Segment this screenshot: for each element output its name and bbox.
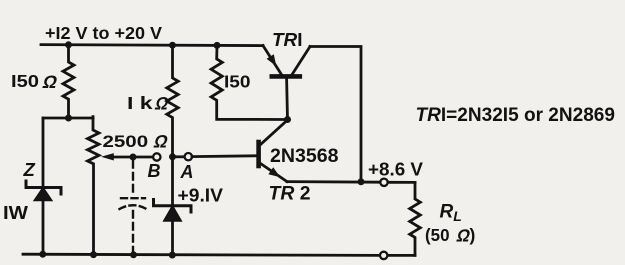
zener diode Z (cathode bar with bent ends, filled triangle, leads) bbox=[26, 118, 61, 254]
terminal B (open circle) bbox=[153, 153, 160, 160]
svg-text:+I2 V to +20 V: +I2 V to +20 V bbox=[45, 23, 162, 43]
wiper arrow of potentiometer bbox=[101, 153, 153, 160]
zener diode +9.1V (cathode bar with bent ends, filled triangle, lead) bbox=[154, 200, 192, 256]
potentiometer 2500-ohm body (leads + zigzag) bbox=[88, 117, 100, 255]
wire terminal A to TR2 base bbox=[192, 154, 257, 158]
terminal +8.6V (open circle) bbox=[380, 179, 387, 186]
resistor 150-ohm left, with leads bbox=[63, 45, 74, 118]
transistor TR2 (NPN 2N3568) bbox=[259, 120, 288, 182]
TR1 emitter diagonal from rail corner with arrow toward base bbox=[263, 46, 282, 75]
svg-text:Ω: Ω bbox=[152, 131, 171, 152]
wire top +V rail bbox=[41, 45, 263, 46]
svg-text:I50: I50 bbox=[11, 71, 39, 91]
svg-text:Ω: Ω bbox=[153, 93, 171, 114]
svg-text:): ) bbox=[470, 225, 476, 245]
svg-text:B: B bbox=[148, 161, 161, 181]
svg-text:Ω: Ω bbox=[41, 71, 60, 92]
svg-text:A: A bbox=[180, 162, 194, 182]
node dot bottom rail at +9.1V zener bbox=[169, 252, 176, 259]
node dot bottom rail at zener Z bbox=[39, 251, 46, 258]
TR1 collector diagonal bbox=[292, 47, 310, 75]
svg-text:I50: I50 bbox=[224, 72, 251, 92]
wire left horizontal link (zener branch to pot branch) bbox=[43, 117, 93, 120]
wire 1k branch down to +9.1V zener bbox=[171, 157, 174, 206]
node junction dot on rail at 150-ohm branch bbox=[65, 41, 72, 48]
wire TR1 collector over and down to output node bbox=[310, 47, 361, 182]
capacitor dashed (optional) vertical dashed lead + plates bbox=[120, 161, 147, 255]
wire bottom rail bbox=[23, 254, 380, 255]
wire node dot to terminal A bbox=[173, 155, 185, 158]
node dot TR1 base / TR2 collector / 150 resistor bbox=[284, 116, 291, 123]
svg-text:2N3568: 2N3568 bbox=[270, 146, 339, 167]
svg-text:Z: Z bbox=[23, 159, 36, 180]
terminal bottom-right (open circle) bbox=[380, 252, 387, 259]
transistor TR1 (PNP pass transistor) bbox=[263, 46, 310, 120]
node dot at output junction below TR1 collector bbox=[358, 178, 365, 185]
resistor RL load (leads + zigzag) bbox=[410, 182, 421, 255]
node dot bottom rail at dashed capacitor bbox=[130, 251, 137, 258]
svg-text:RL: RL bbox=[440, 202, 462, 225]
resistor 1k-ohm (leads + zigzag) bbox=[167, 45, 178, 157]
svg-text:+8.6 V: +8.6 V bbox=[368, 158, 424, 179]
resistor 150 (TR1 bias) with L-wire to TR1 base node bbox=[211, 45, 287, 119]
node junction dot at node-A branch on 1k line bbox=[169, 153, 176, 160]
TR2 emitter diagonal with arrow bbox=[261, 164, 288, 182]
TR1 base lead down to node bbox=[285, 79, 289, 120]
node junction dot on rail at 150 branch bbox=[214, 42, 221, 49]
node dot bottom rail at potentiometer bbox=[90, 251, 97, 258]
svg-text:2500: 2500 bbox=[103, 132, 149, 151]
TR2 base bar bbox=[256, 142, 261, 166]
node junction dot on rail at 1k branch bbox=[169, 42, 176, 49]
svg-text:(50: (50 bbox=[425, 225, 450, 245]
svg-text:TRI=2N32I5 or 2N2869: TRI=2N32I5 or 2N2869 bbox=[416, 105, 616, 126]
node dot on wiper line (dashed capacitor tap) bbox=[130, 154, 137, 161]
svg-text:+9.IV: +9.IV bbox=[178, 185, 224, 206]
svg-text:I k: I k bbox=[127, 93, 153, 113]
svg-text:TRI: TRI bbox=[272, 29, 303, 50]
terminal A (open circle) bbox=[185, 153, 192, 160]
node junction dot at bottom of 150-ohm resistor bbox=[65, 115, 72, 122]
TR2 collector diagonal up to node bbox=[261, 120, 288, 145]
TR1 base bar bbox=[272, 74, 300, 79]
svg-text:IW: IW bbox=[3, 203, 28, 223]
wire output line (+8.6V node) bbox=[287, 180, 380, 183]
svg-text:TR 2: TR 2 bbox=[269, 184, 311, 205]
